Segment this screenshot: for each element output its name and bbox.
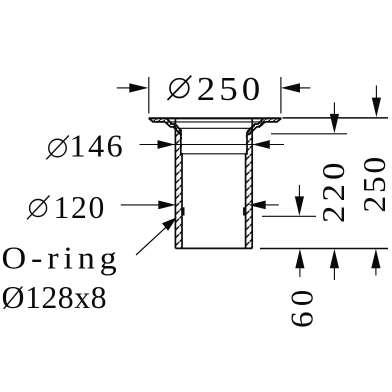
pipe right wall inner line <box>246 132 247 248</box>
label phi250 diameter symbol <box>168 76 192 100</box>
svg-text:250: 250 <box>197 71 264 108</box>
dimension 220 bottom arrow <box>330 249 339 280</box>
interior bore edge line lower <box>181 153 247 155</box>
svg-text:Ø128x8: Ø128x8 <box>2 279 108 315</box>
extension line for 220 top <box>271 133 347 135</box>
dimension phi146 right arrow <box>252 140 269 149</box>
interior bore edge line upper <box>180 127 251 129</box>
flange right plate outline <box>265 118 281 122</box>
bottom reference extension line <box>260 248 388 250</box>
dimension phi250 left arrow <box>117 83 149 92</box>
svg-text:250: 250 <box>356 154 392 213</box>
O-ring leader arrowhead <box>162 217 177 231</box>
dimension phi120 left arrow <box>158 201 176 210</box>
flange top face line <box>149 117 282 119</box>
flange left joggle inner step line <box>167 119 181 131</box>
pipe left wall inner line <box>181 131 182 249</box>
dimension phi250 extension line right <box>280 77 282 114</box>
svg-text:120: 120 <box>54 189 107 225</box>
O-ring right section <box>243 207 246 215</box>
top reference extension line right <box>283 117 389 119</box>
flange right joggle inner step line <box>247 119 263 132</box>
dimension phi146 left arrow <box>158 140 176 149</box>
flange left plate hatch <box>149 118 166 122</box>
extension line for 60 top <box>262 215 316 217</box>
dimension 250 top arrow <box>372 86 381 118</box>
O-ring left section <box>182 207 185 215</box>
svg-text:220: 220 <box>315 158 351 223</box>
pipe right wall hatch <box>246 128 252 248</box>
label phi146 diameter symbol <box>46 136 69 160</box>
dimension phi250 right arrow <box>281 83 310 92</box>
flange right plate hatch <box>265 118 282 122</box>
dimension 250 bottom arrow <box>371 249 380 276</box>
flange right joggle band hatch <box>247 119 265 135</box>
dimension phi120 right arrow <box>248 201 266 210</box>
dimension 60 top arrow <box>295 185 304 216</box>
pipe right wall outer line <box>251 119 253 248</box>
dimension phi120 line left <box>121 204 162 206</box>
svg-text:60: 60 <box>283 284 319 328</box>
dimension phi250 extension line left <box>148 77 150 114</box>
label phi120 diameter symbol <box>27 196 50 220</box>
dimension 220 top arrow <box>330 102 339 133</box>
flange left plate outline <box>149 118 165 122</box>
flange right joggle outer step line <box>247 122 265 135</box>
pipe left wall outer line <box>174 119 176 248</box>
svg-text:146: 146 <box>70 128 126 164</box>
flange left joggle band hatch <box>165 119 182 135</box>
dimension phi120 line right <box>264 204 279 206</box>
dimension phi146 line across bore <box>140 144 285 146</box>
pipe left wall hatch <box>175 128 182 248</box>
O-ring leader line <box>136 222 172 255</box>
interior flange underside edge line <box>167 121 264 123</box>
svg-text:O-ring: O-ring <box>2 240 122 276</box>
flange left joggle outer step line <box>165 122 182 135</box>
pipe bottom edge line <box>175 247 252 249</box>
dimension 60 bottom arrow <box>295 249 304 277</box>
